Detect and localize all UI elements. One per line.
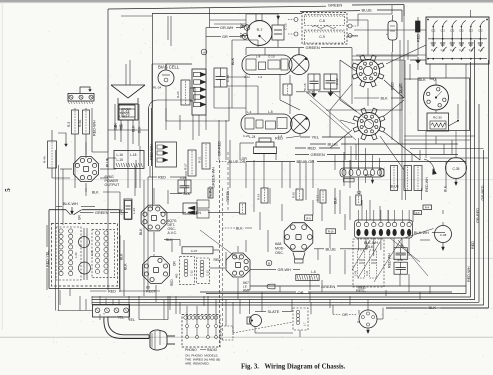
svg-text:GR-RED: GR-RED — [218, 141, 222, 156]
svg-text:C-2: C-2 — [469, 29, 474, 33]
svg-text:BLUE: BLUE — [390, 185, 400, 189]
wire — [210, 19, 246, 21]
svg-text:465: 465 — [175, 273, 179, 278]
tube socket V2 daisy — [358, 113, 381, 136]
capacitor C-19 — [324, 74, 337, 89]
svg-text:BLUE: BLUE — [326, 246, 337, 251]
wire mesh — [165, 64, 167, 70]
svg-text:C-45: C-45 — [180, 176, 187, 180]
svg-text:C-8: C-8 — [319, 19, 325, 23]
wire — [253, 188, 255, 212]
svg-text:YEL: YEL — [312, 135, 320, 140]
contact row CR1 — [355, 220, 413, 238]
resistor R-40 by bank — [416, 21, 421, 32]
svg-text:C-3: C-3 — [469, 48, 474, 52]
svg-text:BLK: BLK — [381, 97, 389, 101]
resistor R-27 — [188, 150, 196, 176]
wire RED mid — [295, 147, 306, 149]
wire — [259, 212, 261, 230]
svg-text:BLK: BLK — [92, 191, 99, 195]
driver transformer box — [118, 105, 135, 120]
electrolytic C-35 — [446, 158, 467, 179]
svg-text:R-26: R-26 — [176, 91, 180, 98]
wire YEL — [300, 136, 310, 138]
resistor R-4 — [423, 205, 432, 210]
svg-text:RED: RED — [170, 279, 174, 286]
svg-text:YEL: YEL — [119, 123, 123, 129]
svg-text:GREEN: GREEN — [95, 211, 109, 215]
resistor R-16 — [326, 229, 336, 234]
svg-text:C-3: C-3 — [431, 48, 436, 52]
connector plug fingers — [192, 69, 206, 115]
wire — [261, 14, 263, 21]
power transformer T1 — [52, 224, 118, 287]
wire BLUE mid — [310, 143, 326, 145]
gang left terminals — [294, 18, 298, 22]
svg-text:C-9: C-9 — [319, 35, 325, 39]
fuse lug on green — [267, 284, 275, 289]
svg-text:BLK: BLK — [184, 192, 191, 196]
tuning rotor X2 — [291, 115, 310, 134]
resistor R-31 — [240, 203, 246, 214]
svg-text:BLK-WH: BLK-WH — [63, 202, 78, 206]
svg-text:C-3: C-3 — [459, 48, 464, 52]
svg-text:R-14: R-14 — [257, 193, 261, 200]
wire GREEN mid2 — [295, 154, 309, 156]
wire — [352, 55, 418, 57]
svg-text:RC-30: RC-30 — [433, 116, 442, 120]
capacitor C-40 — [394, 248, 407, 260]
svg-text:C-2: C-2 — [431, 29, 436, 33]
svg-text:C-2: C-2 — [450, 29, 455, 33]
tuning rotor X1 — [289, 55, 309, 75]
svg-text:RL-24: RL-24 — [153, 86, 162, 90]
gang right terminals — [348, 24, 352, 28]
svg-text:RED: RED — [307, 90, 315, 94]
wire — [255, 14, 257, 21]
svg-text:BLK: BLK — [132, 125, 136, 132]
speaker field socket P2 — [424, 85, 449, 110]
speaker leads — [114, 104, 116, 140]
svg-text:L-7: L-7 — [303, 322, 307, 326]
wire — [349, 160, 351, 188]
shield partition dashed — [219, 160, 221, 347]
capacitor C-45b — [178, 180, 191, 193]
terminal strip TS1 — [68, 94, 94, 102]
AC plug — [150, 330, 167, 350]
wire — [329, 299, 331, 308]
wire — [159, 330, 161, 345]
svg-text:C-12: C-12 — [190, 270, 194, 276]
capacitor C-46 — [124, 199, 132, 219]
svg-text:L-5: L-5 — [268, 110, 273, 114]
svg-text:RECT.: RECT. — [146, 290, 157, 294]
wire bundle right/bottom — [465, 100, 467, 294]
wire — [237, 290, 239, 299]
wire — [344, 250, 346, 274]
wire top border green — [108, 6, 326, 9]
svg-text:R-3: R-3 — [67, 122, 71, 127]
svg-text:GREEN: GREEN — [306, 45, 320, 50]
svg-text:C-4l: C-4l — [397, 258, 403, 262]
svg-text:BLK: BLK — [139, 228, 143, 235]
svg-text:GREEN-WH: GREEN-WH — [212, 167, 216, 188]
tube socket 6A8 — [284, 223, 313, 252]
wire — [281, 162, 283, 189]
resistor R-45 — [283, 84, 292, 95]
svg-text:RED-WH: RED-WH — [150, 144, 154, 160]
IF transformer T4 — [353, 239, 384, 287]
svg-text:RED: RED — [108, 290, 116, 294]
ground by bank — [417, 57, 419, 60]
svg-text:GR: GR — [114, 123, 118, 128]
svg-text:R-27: R-27 — [184, 163, 188, 170]
speaker cable RED-WH — [148, 108, 150, 166]
connector strip CR0 — [340, 168, 384, 177]
ground cap — [358, 190, 360, 192]
svg-text:L-18: L-18 — [130, 153, 137, 157]
svg-text:ARE REMOVED.: ARE REMOVED. — [185, 362, 210, 366]
svg-text:RED: RED — [158, 176, 166, 180]
svg-text:R-5: R-5 — [416, 212, 421, 215]
inner top box — [152, 13, 302, 15]
svg-text:C-15: C-15 — [284, 23, 288, 30]
svg-text:L-3: L-3 — [247, 110, 252, 114]
svg-text:6A8: 6A8 — [275, 242, 281, 246]
bottom plug strip — [156, 142, 177, 167]
wire — [79, 296, 81, 311]
resistor R-6 — [414, 166, 422, 191]
svg-text:GR-RED: GR-RED — [481, 185, 485, 200]
wire — [69, 289, 71, 297]
IF transformer T5 — [293, 308, 308, 330]
svg-text:RED: RED — [209, 191, 213, 198]
svg-text:OR: OR — [342, 313, 348, 317]
tube socket V1 daisy — [357, 60, 380, 83]
svg-text:L-15: L-15 — [120, 115, 126, 119]
svg-text:L-22: L-22 — [132, 208, 136, 214]
page left edge — [1, 3, 3, 330]
wire — [356, 59, 404, 61]
tube socket 6Q7G — [141, 205, 167, 231]
svg-text:R-21: R-21 — [198, 156, 202, 163]
wire — [329, 255, 331, 274]
svg-text:C-2: C-2 — [478, 29, 483, 33]
svg-text:BLK: BLK — [231, 57, 235, 65]
svg-text:BLUE: BLUE — [106, 157, 110, 167]
wire — [203, 296, 205, 306]
wire BLUE-OR — [246, 161, 295, 163]
svg-text:L-20: L-20 — [74, 252, 78, 258]
svg-text:R-4A: R-4A — [43, 156, 47, 163]
resistor R-5 — [83, 110, 90, 134]
svg-text:BLK: BLK — [367, 245, 374, 249]
svg-text:-OR: -OR — [241, 157, 248, 161]
svg-text:BLK: BLK — [429, 305, 437, 310]
svg-text:RADIO: RADIO — [207, 348, 218, 352]
svg-text:C-3: C-3 — [450, 48, 455, 52]
wire — [299, 160, 301, 188]
coil L-10 — [344, 178, 355, 182]
svg-text:C-3: C-3 — [478, 48, 483, 52]
svg-text:R-7: R-7 — [257, 28, 263, 32]
resistor RC-30 — [427, 113, 449, 131]
svg-text:B: B — [268, 262, 270, 266]
svg-text:C-3: C-3 — [441, 48, 446, 52]
speaker magnet box L-18 — [119, 104, 138, 120]
svg-text:GR-WH: GR-WH — [220, 26, 234, 30]
wire — [175, 296, 177, 314]
power cord — [104, 317, 149, 339]
tube socket 6K7 — [226, 253, 250, 277]
page top scan edge — [0, 0, 493, 2]
svg-text:+: + — [386, 32, 388, 36]
svg-text:BLK: BLK — [419, 78, 427, 82]
svg-text:RED: RED — [275, 137, 283, 141]
resistor R-2 — [404, 166, 412, 191]
svg-text:OUTPUT: OUTPUT — [105, 183, 121, 187]
capacitor C-41 — [394, 262, 407, 274]
wire — [429, 286, 431, 294]
wire GREEN mid-left — [160, 211, 186, 213]
svg-text:A.V.C.: A.V.C. — [168, 231, 178, 235]
svg-text:GR-WH: GR-WH — [278, 268, 292, 272]
field socket enclosure — [418, 78, 470, 131]
resistor R-3 — [72, 110, 79, 134]
wire — [153, 238, 155, 252]
svg-text:C-38: C-38 — [440, 233, 447, 237]
resistor R-3b — [414, 211, 422, 215]
capacitor C-36 — [125, 201, 132, 220]
svg-text:C-34: C-34 — [226, 75, 230, 82]
svg-text:R-4: R-4 — [425, 206, 430, 210]
svg-text:GR-RED: GR-RED — [476, 208, 480, 223]
tube socket 80 RECT — [143, 257, 170, 284]
IF transformer T2 — [180, 257, 195, 285]
svg-text:GREEN: GREEN — [311, 152, 325, 157]
resistor R-4A — [48, 141, 57, 168]
wire — [125, 64, 127, 85]
wire — [349, 296, 351, 305]
svg-text:OR: OR — [298, 290, 304, 295]
svg-text:L-15: L-15 — [117, 158, 124, 162]
svg-text:R-5A: R-5A — [78, 119, 82, 127]
svg-text:R-12: R-12 — [316, 194, 320, 201]
tuning gang C-8 C-9 — [302, 13, 347, 45]
svg-text:C-2: C-2 — [459, 29, 464, 33]
svg-text:BLK: BLK — [444, 185, 448, 192]
svg-text:C-2: C-2 — [441, 29, 446, 33]
wire — [129, 60, 131, 85]
svg-text:Wiring Diagram of Chassis.: Wiring Diagram of Chassis. — [265, 364, 346, 371]
page rule line — [0, 336, 493, 338]
wire stems — [343, 152, 345, 165]
svg-text:OR: OR — [173, 261, 177, 266]
wire — [309, 292, 311, 302]
wire — [267, 230, 269, 252]
svg-text:BLK: BLK — [334, 197, 338, 204]
svg-text:L-21: L-21 — [90, 250, 94, 256]
electrolytic C-38 — [435, 226, 452, 243]
svg-text:L-8: L-8 — [256, 55, 261, 59]
wire — [261, 292, 263, 299]
svg-text:C-44: C-44 — [366, 270, 369, 276]
resistor R-5c — [356, 195, 362, 205]
wire GREEN mid — [246, 47, 304, 49]
svg-text:GREEN: GREEN — [328, 3, 342, 8]
pushbutton switch bank S1 — [426, 17, 489, 64]
resistor R-9 — [305, 215, 313, 221]
svg-text:RED: RED — [365, 174, 373, 178]
capacitor C-37 — [182, 247, 213, 254]
svg-text:R-10: R-10 — [292, 191, 296, 198]
wire — [239, 299, 241, 314]
trimmer C-15 — [272, 25, 284, 40]
potentiometer R-7 — [247, 21, 272, 46]
node B circled — [266, 260, 272, 266]
svg-text:BIAS CELL: BIAS CELL — [158, 65, 180, 70]
coil L-6 — [296, 275, 319, 281]
resistor R-26 — [181, 80, 190, 105]
svg-text:BLUE-OR: BLUE-OR — [297, 159, 315, 164]
svg-text:L-9: L-9 — [258, 75, 262, 79]
svg-text:RED: RED — [358, 286, 366, 290]
wire BLK-WH top — [107, 152, 109, 290]
stub box left — [58, 133, 66, 146]
svg-text:SLATE: SLATE — [268, 310, 280, 314]
svg-text:RED: RED — [417, 34, 421, 42]
wire BLUE 6a8 — [314, 248, 324, 250]
resistor R-21 — [202, 143, 210, 169]
wire left border — [107, 9, 109, 152]
osc coil L-5 — [241, 114, 292, 134]
wire — [170, 16, 172, 46]
stub box — [380, 169, 384, 176]
wire — [343, 160, 345, 178]
IF transformer T3 — [196, 258, 209, 283]
top-left stub — [80, 87, 90, 93]
svg-text:GREEN: GREEN — [321, 284, 335, 289]
wire — [279, 286, 281, 292]
volume control contacts — [183, 203, 197, 214]
svg-text:C-18: C-18 — [303, 83, 307, 90]
svg-text:GREEN: GREEN — [226, 190, 230, 202]
wire — [317, 188, 319, 203]
svg-text:RED-YEL: RED-YEL — [46, 251, 50, 267]
antenna coil L-8 — [242, 55, 292, 75]
resistor small top — [208, 188, 213, 198]
svg-text:C-35: C-35 — [453, 167, 460, 171]
wire — [214, 23, 246, 25]
svg-text:L-24: L-24 — [249, 135, 256, 139]
phono-radio switch SW2 — [182, 315, 220, 348]
svg-text:5: 5 — [4, 188, 12, 192]
wire bundle mid horizontals — [337, 285, 466, 287]
svg-text:A: A — [203, 51, 205, 55]
power transformer T1 outer case — [49, 209, 66, 211]
svg-text:MOD-: MOD- — [275, 247, 285, 251]
svg-text:YEL: YEL — [117, 315, 124, 319]
svg-text:C-13: C-13 — [206, 270, 210, 276]
svg-text:OSC.: OSC. — [275, 251, 284, 255]
svg-text:BLK: BLK — [138, 126, 142, 133]
wire — [309, 276, 311, 290]
speaker cone — [111, 85, 145, 98]
svg-text:RED-WH: RED-WH — [425, 177, 429, 192]
arrow contact — [433, 169, 437, 175]
svg-text:Fig. 3.: Fig. 3. — [241, 364, 259, 371]
svg-text:RED-WH: RED-WH — [467, 266, 471, 282]
resistor R-10 — [296, 189, 303, 200]
capacitor C-18 — [308, 74, 320, 90]
svg-text:L-16: L-16 — [117, 153, 124, 157]
svg-text:GR: GR — [222, 35, 228, 39]
svg-text:C-37: C-37 — [191, 249, 198, 253]
svg-text:R-9: R-9 — [306, 216, 311, 220]
svg-text:C-19: C-19 — [335, 78, 339, 85]
svg-text:RED: RED — [308, 146, 317, 151]
wire blue top — [300, 10, 360, 13]
wire long diagonals — [304, 90, 350, 130]
svg-text:PHONO: PHONO — [185, 348, 197, 352]
svg-text:C-45: C-45 — [355, 270, 358, 276]
resistor R-1 — [391, 166, 398, 191]
svg-text:GR: GR — [78, 215, 82, 220]
resistor R-12 — [320, 190, 326, 203]
svg-text:RED-WH: RED-WH — [93, 120, 97, 136]
svg-text:BLK-: BLK- — [236, 227, 245, 231]
pilot lamp PL — [247, 317, 251, 324]
svg-text:RED: RED — [471, 241, 475, 249]
svg-text:C-10: C-10 — [268, 55, 275, 59]
wire — [167, 16, 169, 40]
tube socket dial lamp — [359, 310, 377, 328]
svg-text:RED: RED — [214, 258, 222, 262]
capacitor C-34 — [214, 68, 227, 87]
svg-text:BLUE: BLUE — [362, 8, 373, 13]
node A circled — [244, 25, 250, 31]
resistor R-14 — [261, 188, 268, 203]
wire — [91, 296, 93, 305]
wire — [321, 280, 323, 292]
output transformer L-16 — [114, 151, 144, 169]
tube socket 6V6G — [74, 157, 99, 182]
arrow below contact — [371, 180, 373, 184]
terminal strip TS2 — [93, 305, 130, 318]
wire — [163, 300, 165, 320]
electrolytic C-32 — [388, 21, 397, 40]
node A2 circled — [201, 49, 207, 55]
wire — [85, 299, 87, 310]
svg-text:R-16: R-16 — [328, 230, 334, 234]
svg-text:L-6: L-6 — [311, 270, 316, 274]
wire — [419, 292, 421, 299]
